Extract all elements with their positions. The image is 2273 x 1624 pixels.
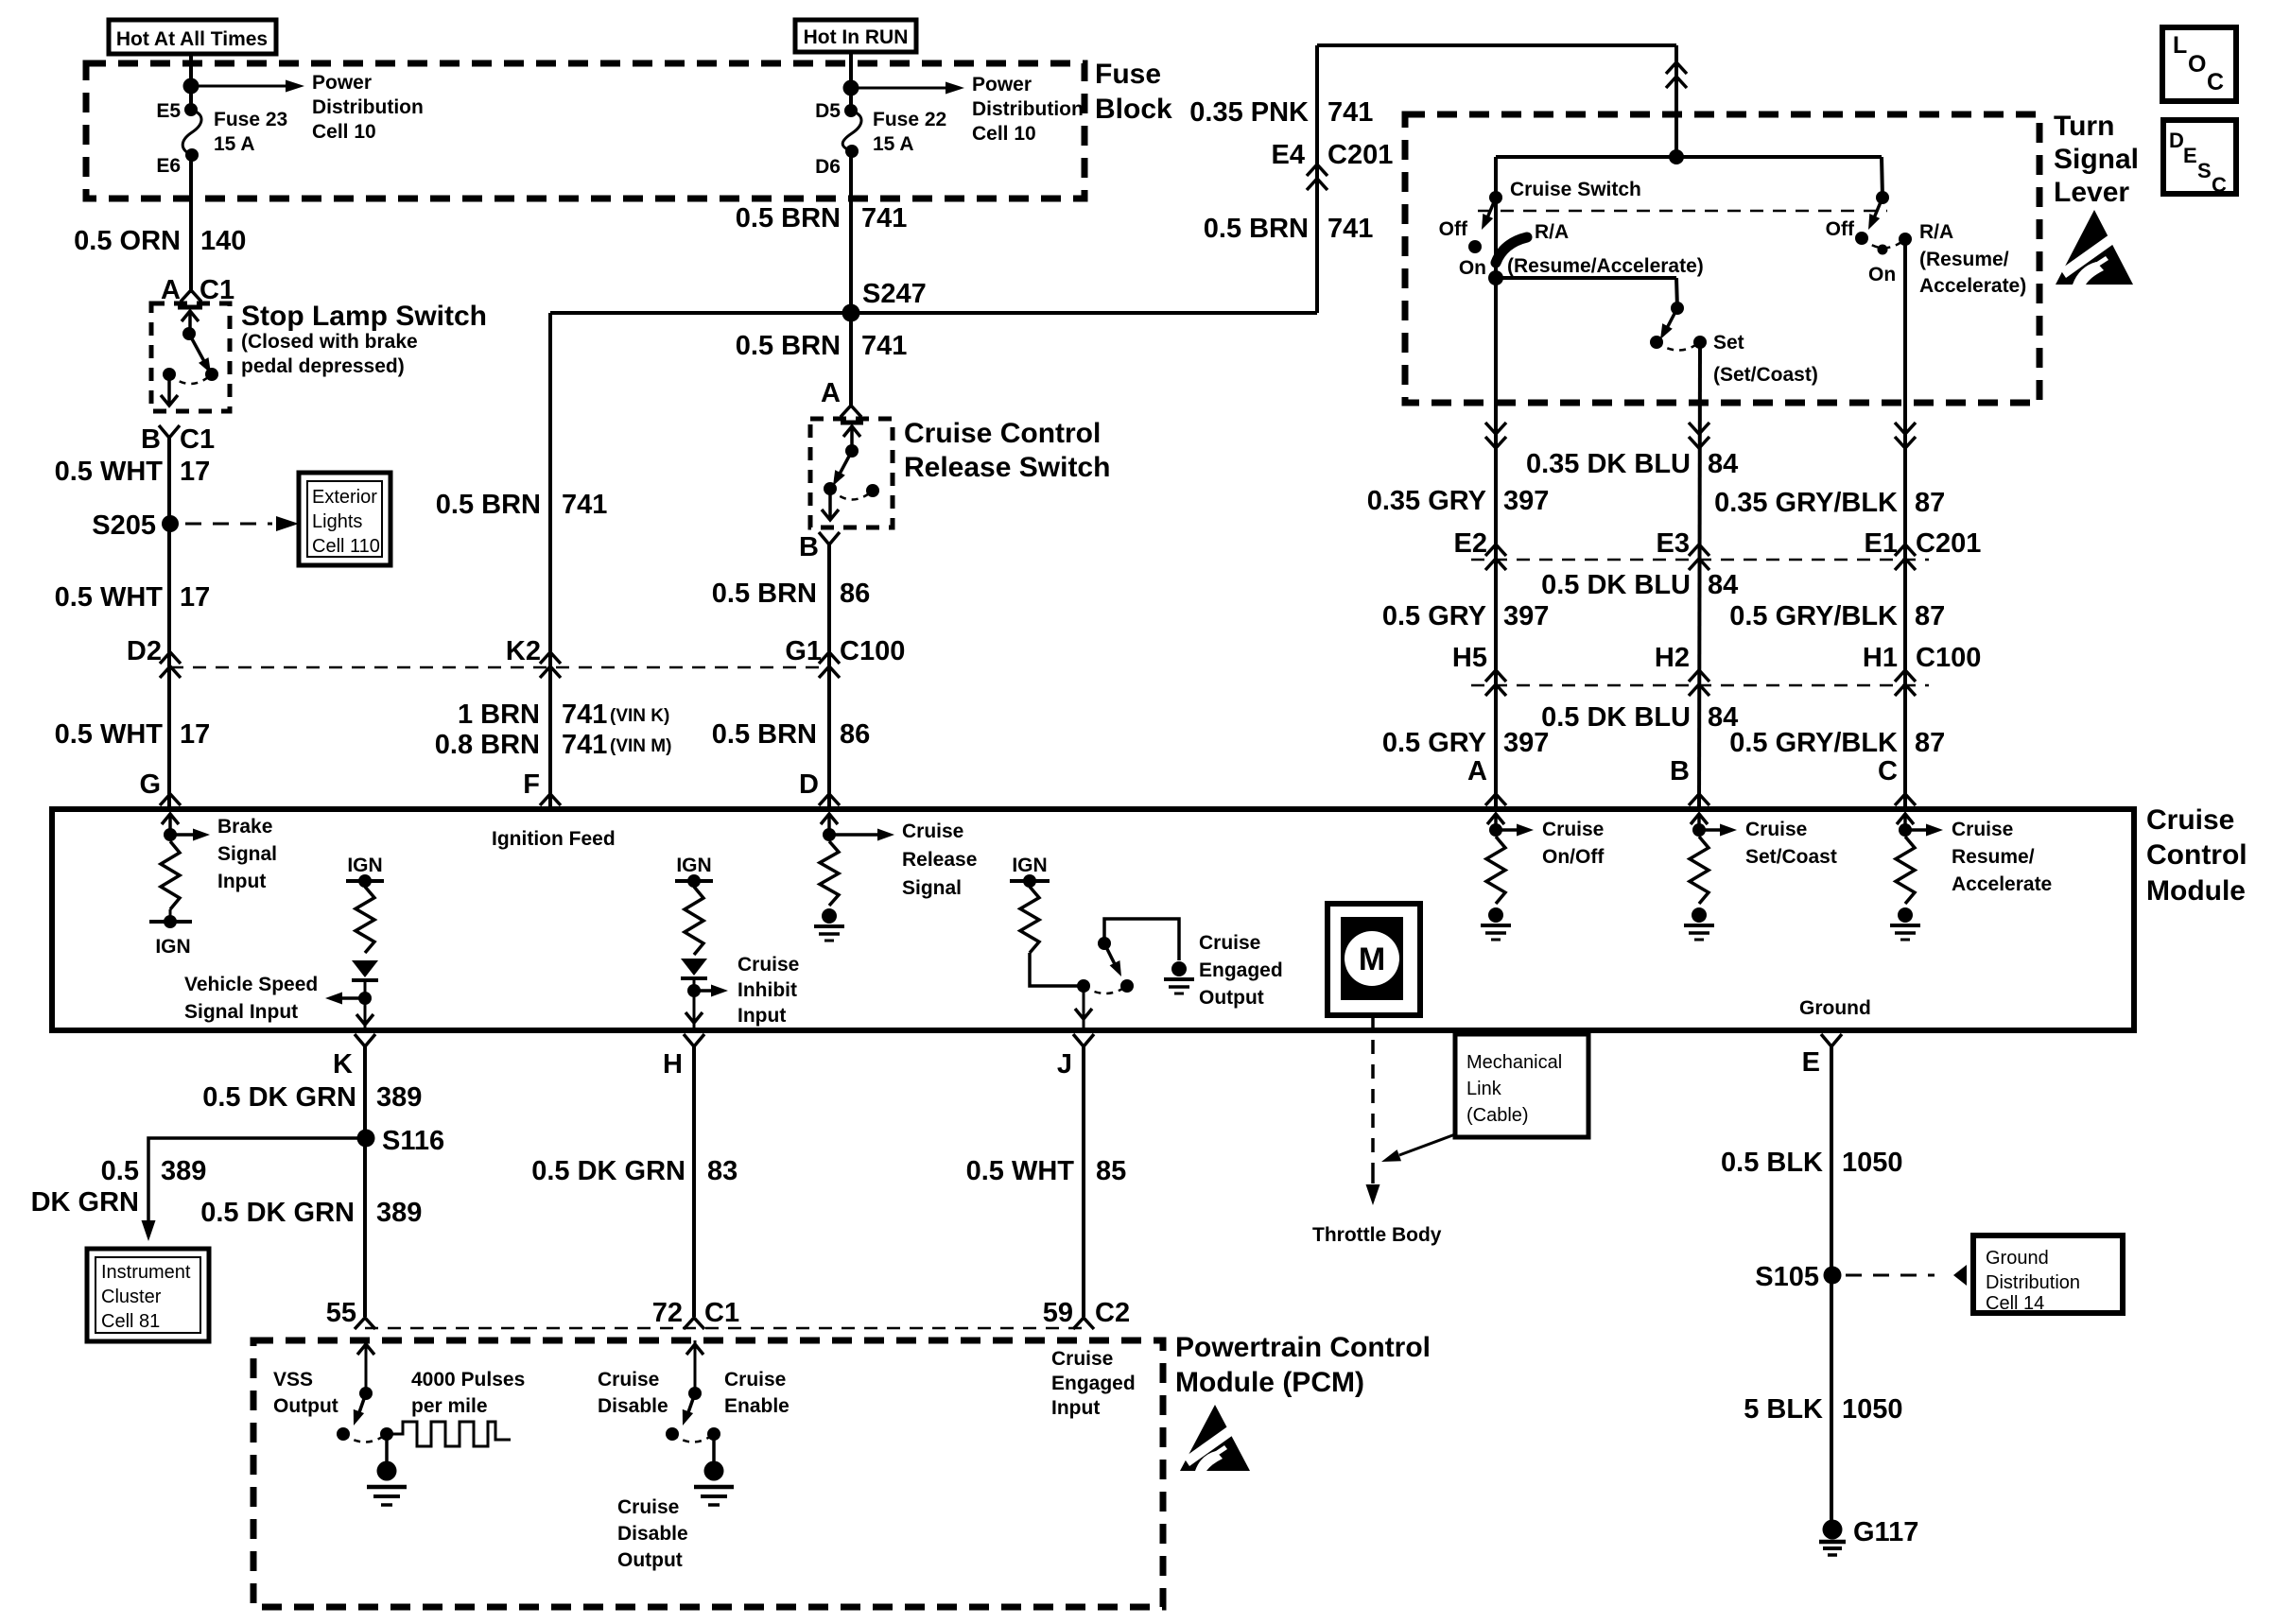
svg-text:Block: Block xyxy=(1095,94,1172,125)
release switch dashed throw arc xyxy=(830,489,873,500)
svg-text:Cruise: Cruise xyxy=(1745,819,1807,840)
cruise disable dashed throw arc xyxy=(672,1434,714,1443)
release switch top contact xyxy=(841,421,863,425)
svg-text:C201: C201 xyxy=(1327,140,1393,170)
svg-text:E5: E5 xyxy=(156,100,181,122)
svg-text:1050: 1050 xyxy=(1842,1394,1903,1425)
svg-text:(Cable): (Cable) xyxy=(1466,1105,1529,1126)
svg-text:0.5 DK GRN: 0.5 DK GRN xyxy=(202,1082,356,1113)
svg-text:86: 86 xyxy=(840,719,870,750)
svg-text:IGN: IGN xyxy=(676,855,711,876)
ground (cruise set/coast) xyxy=(1692,907,1707,923)
turn signal lever dashed box xyxy=(1405,114,2039,403)
svg-text:Release Switch: Release Switch xyxy=(904,452,1110,483)
release switch left contact xyxy=(824,482,837,495)
svg-text:Input: Input xyxy=(737,1005,786,1027)
connector C100 chevrons x=1582 xyxy=(1485,670,1506,682)
wire cruise switch top bus xyxy=(1496,155,1882,159)
svg-text:Fuse: Fuse xyxy=(1095,59,1161,90)
svg-text:Instrument: Instrument xyxy=(101,1262,191,1283)
splice S205 xyxy=(162,515,179,532)
set switch dashed throw arc xyxy=(1657,342,1700,351)
IGN rail (brake input) xyxy=(169,909,172,922)
svg-text:0.5 BRN: 0.5 BRN xyxy=(736,331,841,361)
svg-text:0.35 GRY/BLK: 0.35 GRY/BLK xyxy=(1714,488,1898,518)
wire pin H to PCM 72 xyxy=(692,1046,696,1317)
svg-text:Ground: Ground xyxy=(1986,1248,2049,1269)
svg-text:0.35 PNK: 0.35 PNK xyxy=(1189,97,1309,128)
set switch right contact xyxy=(1693,336,1707,349)
svg-text:17: 17 xyxy=(180,582,210,613)
wire cruise on/off (A column) xyxy=(1494,278,1498,809)
svg-text:Cruise: Cruise xyxy=(1542,819,1604,840)
connector C201 chevrons x=1582 xyxy=(1485,544,1506,556)
stop lamp switch dashed box xyxy=(151,303,230,411)
svg-text:397: 397 xyxy=(1503,601,1549,631)
svg-text:G: G xyxy=(139,769,161,800)
svg-text:per mile: per mile xyxy=(411,1395,488,1417)
svg-text:4000 Pulses: 4000 Pulses xyxy=(411,1369,525,1391)
vss output arrow to pin K xyxy=(364,998,367,1013)
svg-text:D6: D6 xyxy=(815,156,841,178)
svg-text:Cruise: Cruise xyxy=(2146,804,2234,836)
svg-text:E6: E6 xyxy=(156,155,181,177)
vss output arrow into PCM xyxy=(365,1354,368,1393)
svg-text:Output: Output xyxy=(1199,987,1264,1009)
ESD sensitivity triangle (PCM) xyxy=(1180,1405,1250,1471)
svg-text:Cruise: Cruise xyxy=(902,821,963,842)
splice S116 xyxy=(357,1130,375,1148)
svg-text:Distribution: Distribution xyxy=(972,98,1084,120)
wire pin J to PCM 59 xyxy=(1082,1046,1085,1317)
Mechanical Link (Cable) box xyxy=(1455,1034,1588,1137)
svg-text:(Set/Coast): (Set/Coast) xyxy=(1713,364,1818,386)
svg-text:Off: Off xyxy=(1826,218,1855,240)
fuse F23 element xyxy=(182,110,201,155)
svg-text:Resume/: Resume/ xyxy=(1952,846,2035,868)
svg-text:C1: C1 xyxy=(180,424,215,455)
vss switch left contact xyxy=(337,1427,350,1441)
svg-text:Hot At All Times: Hot At All Times xyxy=(116,28,268,50)
wire S247 down to release switch xyxy=(849,313,853,406)
svg-text:87: 87 xyxy=(1915,728,1945,758)
svg-text:M: M xyxy=(1359,942,1385,977)
cruise disable switch blade xyxy=(687,1393,695,1415)
svg-text:0.8 BRN: 0.8 BRN xyxy=(435,730,540,760)
cruise engaged right contact xyxy=(1120,979,1134,993)
module pin H connector xyxy=(684,1034,704,1046)
svg-text:(Resume/Accelerate): (Resume/Accelerate) xyxy=(1507,255,1704,277)
splice S105 xyxy=(1824,1267,1842,1285)
svg-text:0.5: 0.5 xyxy=(101,1156,139,1186)
svg-text:C100: C100 xyxy=(1916,643,1981,673)
wire from Hot In RUN into fuse 22 xyxy=(849,52,853,111)
Exterior Lights Cell 110 box xyxy=(299,473,390,565)
svg-text:0.5 GRY/BLK: 0.5 GRY/BLK xyxy=(1729,728,1898,758)
wire pin K to PCM 55 xyxy=(363,1046,367,1317)
svg-text:Disable: Disable xyxy=(598,1395,668,1417)
cable arrow to throttle body xyxy=(1371,1170,1375,1183)
svg-text:H2: H2 xyxy=(1655,643,1690,673)
svg-text:On: On xyxy=(1868,264,1896,285)
svg-text:DK GRN: DK GRN xyxy=(31,1187,139,1218)
svg-text:(VIN K): (VIN K) xyxy=(610,706,669,726)
fuse block dashed box xyxy=(86,63,1084,199)
svg-text:17: 17 xyxy=(180,457,210,487)
svg-text:D2: D2 xyxy=(127,636,162,666)
module pin K connector xyxy=(355,1034,375,1046)
right cruise switch pivot xyxy=(1876,191,1889,204)
cruise engaged arrow to pin J xyxy=(1083,986,1085,1008)
svg-text:S247: S247 xyxy=(862,279,927,309)
svg-text:(Closed with brake: (Closed with brake xyxy=(241,331,418,353)
left cruise switch blade xyxy=(1486,198,1496,220)
svg-text:A: A xyxy=(1467,756,1487,786)
svg-text:0.5 BRN: 0.5 BRN xyxy=(436,490,541,520)
cruise engaged switch blade xyxy=(1104,943,1116,966)
svg-text:389: 389 xyxy=(161,1156,206,1186)
node at riser junction xyxy=(1669,149,1684,164)
svg-text:R/A: R/A xyxy=(1535,221,1569,243)
svg-text:0.5 DK BLU: 0.5 DK BLU xyxy=(1541,570,1691,600)
vss switch right contact xyxy=(380,1427,393,1441)
svg-text:Off: Off xyxy=(1439,218,1468,240)
node junction above D5 xyxy=(843,80,859,96)
cruise inhibit arrow xyxy=(694,989,711,993)
wire pin E ground path xyxy=(1830,1046,1833,1520)
release switch right contact xyxy=(866,484,879,497)
svg-text:84: 84 xyxy=(1708,449,1738,479)
release switch pivot xyxy=(845,444,859,458)
wire riser to C201 E4 xyxy=(1315,45,1319,313)
ground (cruise release) xyxy=(822,908,837,924)
svg-text:0.5 DK GRN: 0.5 DK GRN xyxy=(531,1156,685,1186)
left cruise switch pivot xyxy=(1489,191,1502,204)
svg-text:Input: Input xyxy=(217,871,266,892)
DESC reference box xyxy=(2163,120,2236,194)
svg-text:Signal: Signal xyxy=(902,877,962,899)
svg-text:0.5 WHT: 0.5 WHT xyxy=(55,582,164,613)
Instrument Cluster Cell 81 box xyxy=(87,1249,209,1341)
svg-text:Output: Output xyxy=(617,1549,683,1571)
cruise disable switch pivot xyxy=(688,1387,702,1400)
svg-text:Cruise: Cruise xyxy=(617,1496,679,1518)
svg-text:0.5 WHT: 0.5 WHT xyxy=(55,719,164,750)
svg-text:0.5 BRN: 0.5 BRN xyxy=(712,719,817,750)
svg-text:E1: E1 xyxy=(1865,528,1898,559)
svg-text:Ignition Feed: Ignition Feed xyxy=(492,828,616,850)
splice S247 xyxy=(842,304,860,322)
svg-text:D5: D5 xyxy=(815,100,841,122)
svg-text:389: 389 xyxy=(376,1198,422,1228)
vehicle speed signal node xyxy=(358,992,372,1005)
cruise release pull-down resistor xyxy=(820,841,839,906)
svg-text:140: 140 xyxy=(200,226,246,256)
dashed reference arrow to Ground Distribution xyxy=(1846,1274,1935,1277)
svg-text:Distribution: Distribution xyxy=(312,96,424,118)
svg-text:Stop Lamp Switch: Stop Lamp Switch xyxy=(241,301,487,332)
cruise inhibit arrow to pin H xyxy=(693,991,696,1011)
connector C100 dashed line (left) xyxy=(170,666,829,669)
svg-text:H5: H5 xyxy=(1452,643,1487,673)
pin D6 xyxy=(845,145,859,158)
svg-text:Engaged: Engaged xyxy=(1199,959,1283,981)
connector C201 dashed line (right) xyxy=(1471,559,1929,561)
svg-text:Lights: Lights xyxy=(312,511,362,532)
svg-text:Module: Module xyxy=(2146,875,2246,907)
cruise release signal pin arrow xyxy=(827,814,831,835)
wire set/coast (B column) xyxy=(1699,342,1700,809)
Ground Distribution Cell 14 box xyxy=(1973,1235,2123,1313)
svg-text:K: K xyxy=(333,1049,353,1080)
wire drop to left switch xyxy=(1494,157,1498,198)
node set-switch feed junction xyxy=(1488,270,1503,285)
svg-text:Disable: Disable xyxy=(617,1523,688,1545)
4000 pulses per mile waveform xyxy=(387,1422,511,1446)
ESD sensitivity triangle (turn signal lever) xyxy=(2056,210,2133,285)
svg-text:C: C xyxy=(1878,756,1898,786)
svg-text:0.5 BLK: 0.5 BLK xyxy=(1721,1148,1823,1178)
wire riser into cruise switch xyxy=(1674,45,1678,157)
svg-text:Inhibit: Inhibit xyxy=(737,979,797,1001)
node junction above E5 xyxy=(183,78,200,95)
svg-text:Cell 10: Cell 10 xyxy=(972,123,1036,145)
svg-text:83: 83 xyxy=(707,1156,737,1186)
svg-text:397: 397 xyxy=(1503,728,1549,758)
stop lamp switch blade xyxy=(189,334,206,365)
vehicle speed signal arrow xyxy=(342,996,365,1000)
svg-text:F: F xyxy=(523,769,540,800)
svg-text:(VIN M): (VIN M) xyxy=(610,736,671,756)
svg-text:Set: Set xyxy=(1713,332,1744,354)
svg-text:Cell 14: Cell 14 xyxy=(1986,1293,2044,1314)
svg-text:VSS: VSS xyxy=(273,1369,313,1391)
svg-text:On: On xyxy=(1459,257,1486,279)
right switch R/A contact xyxy=(1899,233,1912,246)
set switch blade xyxy=(1666,308,1677,330)
svg-text:85: 85 xyxy=(1096,1156,1126,1186)
connector C201 chevrons x=2015 xyxy=(1895,544,1916,556)
svg-text:H: H xyxy=(663,1049,683,1080)
svg-text:Hot In RUN: Hot In RUN xyxy=(804,26,909,48)
svg-text:0.5 GRY: 0.5 GRY xyxy=(1382,728,1486,758)
svg-text:0.5 WHT: 0.5 WHT xyxy=(55,457,164,487)
svg-text:1 BRN: 1 BRN xyxy=(458,700,540,730)
cruise inhibit diode xyxy=(681,959,707,976)
powertrain control module dashed box xyxy=(253,1340,1163,1607)
svg-text:Module (PCM): Module (PCM) xyxy=(1175,1367,1364,1398)
svg-text:C: C xyxy=(2207,69,2224,95)
vss switch blade xyxy=(358,1393,366,1415)
wire drop to right switch xyxy=(1882,157,1883,198)
svg-text:15 A: 15 A xyxy=(214,133,255,155)
svg-text:741: 741 xyxy=(1327,97,1373,128)
svg-text:R/A: R/A xyxy=(1919,221,1953,243)
svg-text:Input: Input xyxy=(1051,1397,1100,1419)
svg-text:C1: C1 xyxy=(704,1298,739,1328)
svg-text:Signal Input: Signal Input xyxy=(184,1001,298,1023)
svg-text:G1: G1 xyxy=(785,636,822,666)
svg-text:741: 741 xyxy=(562,730,607,760)
set switch pivot xyxy=(1671,302,1684,315)
svg-text:A: A xyxy=(821,378,841,408)
wire ignition feed riser K2 to module pin F xyxy=(548,313,552,809)
arrow to Power Distribution Cell 10 (right) xyxy=(851,87,946,90)
wire D6 down to splice S247 xyxy=(849,151,853,313)
cruise on/off pin arrow xyxy=(1494,814,1498,830)
connector chevrons leaving lever box x=1582 xyxy=(1485,423,1506,434)
svg-text:17: 17 xyxy=(180,719,210,750)
svg-text:Vehicle Speed: Vehicle Speed xyxy=(184,974,318,995)
svg-text:E: E xyxy=(2183,144,2197,167)
svg-text:B: B xyxy=(799,532,819,562)
arrow to Power Distribution Cell 10 (left) xyxy=(191,85,286,88)
svg-text:0.5 BRN: 0.5 BRN xyxy=(712,579,817,609)
svg-text:84: 84 xyxy=(1708,570,1738,600)
svg-text:0.5 BRN: 0.5 BRN xyxy=(1204,214,1309,244)
cruise resume resistor xyxy=(1896,837,1915,904)
svg-text:On/Off: On/Off xyxy=(1542,846,1605,868)
svg-text:Cruise: Cruise xyxy=(1952,819,2013,840)
svg-text:741: 741 xyxy=(562,490,607,520)
svg-text:Cruise Control: Cruise Control xyxy=(904,418,1101,449)
svg-text:B: B xyxy=(141,424,161,455)
svg-text:0.5 ORN: 0.5 ORN xyxy=(74,226,181,256)
cruise control module box xyxy=(52,809,2134,1030)
wire top feed to turn signal lever xyxy=(1317,43,1676,47)
svg-text:G117: G117 xyxy=(1853,1517,1918,1547)
svg-text:Cruise: Cruise xyxy=(724,1369,786,1391)
stop lamp switch output contact xyxy=(163,368,176,381)
svg-text:741: 741 xyxy=(562,700,607,730)
svg-text:S116: S116 xyxy=(382,1126,444,1156)
cruise engaged dashed throw arc xyxy=(1084,986,1127,993)
right switch dashed throw arc xyxy=(1862,238,1905,248)
svg-text:IGN: IGN xyxy=(347,855,382,876)
connector C100 dashed line (right) xyxy=(1471,684,1929,687)
svg-text:Fuse 22: Fuse 22 xyxy=(873,109,946,130)
svg-text:E3: E3 xyxy=(1657,528,1690,559)
svg-text:0.35 DK BLU: 0.35 DK BLU xyxy=(1526,449,1691,479)
module pin chevron x=2015 xyxy=(1895,794,1916,805)
cruise disable arrow into PCM xyxy=(694,1354,697,1393)
svg-text:Cell 110: Cell 110 xyxy=(312,536,380,557)
svg-text:Cruise: Cruise xyxy=(1051,1348,1113,1370)
svg-text:741: 741 xyxy=(861,203,907,233)
vss dashed throw arc xyxy=(343,1434,387,1443)
svg-text:Engaged: Engaged xyxy=(1051,1373,1136,1394)
ground (cruise resume) xyxy=(1898,907,1913,923)
svg-text:Link: Link xyxy=(1466,1079,1502,1099)
svg-text:Release: Release xyxy=(902,849,977,871)
left switch On contact strip (thick arc) xyxy=(1496,237,1527,263)
stop lamp switch pivot xyxy=(182,327,196,340)
svg-text:Powertrain Control: Powertrain Control xyxy=(1175,1332,1431,1363)
svg-text:5 BLK: 5 BLK xyxy=(1744,1394,1823,1425)
svg-text:Exterior: Exterior xyxy=(312,487,377,508)
ground (cruise enable) xyxy=(712,1434,716,1461)
wire resistor to engaged switch xyxy=(1030,953,1084,986)
right switch Off contact xyxy=(1855,232,1868,245)
svg-text:Accelerate: Accelerate xyxy=(1952,873,2052,895)
cruise engaged resistor xyxy=(1020,887,1039,953)
svg-text:Cell 10: Cell 10 xyxy=(312,121,376,143)
connector chevrons leaving lever box x=2015 xyxy=(1895,423,1916,434)
module pin J connector xyxy=(1073,1034,1094,1046)
vss diode xyxy=(352,960,378,977)
svg-text:Cruise Switch: Cruise Switch xyxy=(1510,179,1641,200)
connector C100 chevrons x=2015 xyxy=(1895,670,1916,682)
svg-text:15 A: 15 A xyxy=(873,133,914,155)
svg-text:H1: H1 xyxy=(1863,643,1898,673)
svg-text:59: 59 xyxy=(1043,1298,1073,1328)
PCM connector dashed line xyxy=(365,1327,1084,1330)
cruise on/off resistor xyxy=(1486,837,1505,904)
svg-text:Output: Output xyxy=(273,1395,338,1417)
cruise set/coast resistor xyxy=(1690,837,1709,904)
wire from Hot At All Times into fuse 23 xyxy=(189,54,193,110)
svg-text:397: 397 xyxy=(1503,486,1549,516)
svg-text:Ground: Ground xyxy=(1799,997,1871,1019)
svg-text:S205: S205 xyxy=(92,510,156,541)
cruise inhibit resistor xyxy=(685,887,703,955)
svg-text:72: 72 xyxy=(652,1298,683,1328)
svg-text:Set/Coast: Set/Coast xyxy=(1745,846,1837,868)
svg-text:S: S xyxy=(2197,159,2212,182)
svg-text:E2: E2 xyxy=(1454,528,1487,559)
set switch left contact xyxy=(1650,336,1663,349)
wire left switch down to junction xyxy=(1494,198,1498,278)
stop lamp switch right contact xyxy=(205,368,218,381)
connector chevrons on riser xyxy=(1666,62,1687,74)
svg-text:Cell 81: Cell 81 xyxy=(101,1311,160,1332)
svg-text:0.35 GRY: 0.35 GRY xyxy=(1367,486,1486,516)
pointer from mechanical link box to cable xyxy=(1399,1134,1455,1155)
svg-text:389: 389 xyxy=(376,1082,422,1113)
svg-text:0.5 WHT: 0.5 WHT xyxy=(966,1156,1075,1186)
cruise disable left contact xyxy=(666,1427,679,1441)
svg-text:55: 55 xyxy=(326,1298,356,1328)
cruise engaged switch common node xyxy=(1077,979,1090,993)
ground (vss) xyxy=(385,1434,389,1461)
brake signal input pin arrow xyxy=(168,814,172,835)
connector C201 chevrons x=1797 xyxy=(1689,544,1709,556)
cruise inhibit node xyxy=(687,984,701,997)
cruise set/coast pin arrow xyxy=(1697,814,1701,830)
wire S247 horizontal bus xyxy=(550,311,1317,315)
cruise control release switch dashed box xyxy=(810,419,893,527)
right switch mid contact xyxy=(1878,245,1888,255)
LOC reference box xyxy=(2162,27,2236,101)
module pin E connector xyxy=(1821,1034,1842,1046)
connector chevrons leaving lever box x=1797 xyxy=(1689,423,1709,434)
dashed reference arrow to Exterior Lights xyxy=(185,523,272,526)
svg-text:0.5 BRN: 0.5 BRN xyxy=(736,203,841,233)
wire across to set switch xyxy=(1496,276,1676,280)
fuse F22 element xyxy=(842,111,861,151)
svg-text:O: O xyxy=(2188,51,2206,78)
svg-text:Cruise: Cruise xyxy=(1199,932,1260,954)
pin E6 xyxy=(185,148,199,162)
svg-text:B: B xyxy=(1670,756,1690,786)
svg-text:Enable: Enable xyxy=(724,1395,789,1417)
svg-text:0.5 DK GRN: 0.5 DK GRN xyxy=(200,1198,355,1228)
svg-text:Throttle Body: Throttle Body xyxy=(1312,1224,1442,1246)
svg-text:C: C xyxy=(2212,173,2227,197)
svg-text:E4: E4 xyxy=(1272,140,1305,170)
svg-text:Power: Power xyxy=(312,72,372,94)
svg-text:86: 86 xyxy=(840,579,870,609)
